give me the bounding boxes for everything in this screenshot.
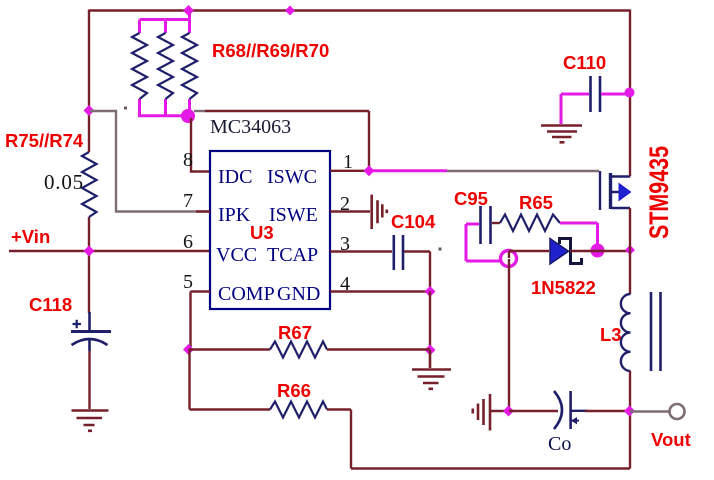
wire C118 to ground (88, 351, 90, 409)
svg-text:R75//R74: R75//R74 (5, 130, 84, 151)
wire pin3 to C104 (330, 250, 392, 252)
junction dot resistor-bank bottom (181, 109, 195, 123)
ground pin2 (rotated right) (372, 195, 388, 229)
node output junction (624, 406, 635, 417)
wire drain node to L3 (629, 250, 631, 294)
wire comp node to R67 (189, 348, 271, 350)
wire C95 to R65 (492, 222, 500, 224)
wire Co to output node (585, 410, 630, 412)
wire pin4 node down to ground node (429, 292, 431, 351)
capacitor C118 (71, 312, 111, 351)
svg-text:+Vin: +Vin (11, 226, 50, 247)
ground below C118 (72, 411, 109, 433)
node ground junction (425, 345, 436, 356)
ground tilted at Co (472, 394, 509, 431)
svg-text:1N5822: 1N5822 (531, 277, 596, 298)
svg-text:IPK: IPK (218, 204, 251, 226)
node top-left junction (183, 5, 194, 16)
svg-text:IDC: IDC (218, 166, 252, 188)
svg-text:Co: Co (548, 433, 571, 455)
node drain junction (625, 245, 635, 255)
node anode ring (501, 251, 517, 267)
resistor R69 (158, 33, 173, 99)
svg-text:ISWC: ISWC (267, 166, 317, 188)
svg-text:COMP: COMP (218, 283, 275, 305)
label R75//R74 (5, 130, 84, 151)
svg-text:C104: C104 (391, 211, 436, 232)
node pin1 junction (364, 165, 375, 176)
wire C110 left to ground (561, 94, 589, 124)
node pin4 junction (425, 286, 436, 297)
svg-text:ISWE: ISWE (269, 204, 318, 226)
wire L3 to output node (629, 371, 631, 411)
capacitor C104 (394, 235, 403, 270)
label C110 (563, 52, 606, 73)
wire C110 right to rail (601, 93, 626, 96)
node left rail junction A (84, 105, 95, 116)
svg-text:GND: GND (277, 283, 320, 305)
svg-text:R68//R69/R70: R68//R69/R70 (212, 40, 329, 61)
svg-text:C118: C118 (29, 294, 72, 315)
pin 4 number (340, 273, 350, 295)
wire C104 to pin4 node (404, 252, 430, 292)
wire left rail upper (88, 10, 90, 153)
resistor R66 (270, 402, 327, 418)
capacitor C110 (591, 76, 601, 112)
pin 3 number (340, 233, 350, 255)
label C95 (454, 188, 488, 209)
wire node to Co (509, 410, 558, 412)
wire right rail (629, 10, 631, 177)
wire IPK sense (gray) (90, 111, 209, 212)
label R65 (519, 192, 553, 213)
pin 6 number (183, 231, 193, 253)
resistor R68 (132, 33, 147, 99)
pin 5 number (183, 271, 193, 293)
svg-text:8: 8 (183, 149, 193, 171)
label C118 (29, 294, 72, 315)
wire pin1 to gate (gray part) (447, 170, 599, 172)
resistor R67 (270, 342, 327, 358)
svg-text:5: 5 (183, 271, 193, 293)
wire +Vin to pin6 (9, 250, 210, 252)
terminal Vout (670, 404, 685, 419)
wire R66 to bottom rail (327, 410, 630, 469)
ground below C110 (541, 126, 582, 144)
svg-text:TCAP: TCAP (267, 244, 318, 266)
node comp junction (183, 344, 194, 355)
svg-text:Vout: Vout (651, 429, 691, 450)
label R67 (278, 322, 312, 343)
label U3 (250, 222, 274, 243)
label +Vin (11, 226, 50, 247)
capacitor Co (554, 391, 588, 429)
svg-text:VCC: VCC (216, 244, 257, 266)
resistor R75//R74 (82, 152, 97, 217)
capacitor C95 (481, 206, 491, 244)
wire cathode to drain rail (570, 250, 630, 252)
label MC34063 (210, 116, 291, 138)
pin 1 number (343, 151, 353, 173)
label C104 (391, 211, 436, 232)
svg-text:7: 7 (183, 190, 193, 212)
pin 8 number (183, 149, 193, 171)
wire output lead (gray) (630, 410, 669, 412)
svg-text:6: 6 (183, 231, 193, 253)
wire bank to pin8 (191, 118, 210, 172)
wire comp node down to R66 (190, 350, 271, 410)
wire R65 to cathode node (560, 223, 598, 245)
svg-text:R66: R66 (277, 380, 311, 401)
svg-text:R67: R67 (278, 322, 312, 343)
label L3 (600, 324, 622, 345)
inductor L3 (621, 292, 661, 371)
wire R68 bank top bus (140, 11, 190, 34)
wire anode node down (508, 259, 510, 411)
pin 7 number (183, 190, 193, 212)
svg-text:U3: U3 (250, 222, 274, 243)
junction dot cathode (591, 244, 605, 258)
svg-text:0.05: 0.05 (44, 170, 84, 194)
svg-text:STM9435: STM9435 (644, 146, 674, 239)
wire top rail (89, 9, 630, 11)
stray dot artifact near bank bus (124, 107, 127, 110)
wire pin5 to comp node (191, 292, 211, 350)
label STM9435 (644, 146, 674, 239)
label R66 (277, 380, 311, 401)
wire left rail lower (88, 217, 90, 313)
node top-mid junction (285, 6, 295, 16)
wire anode lead (509, 251, 549, 258)
label Co (548, 433, 571, 455)
pin 2 number (340, 193, 350, 215)
diode 1N5822 (550, 239, 582, 265)
wire pin1 to gate (magenta part) (369, 169, 447, 172)
wire pin4 to node (330, 290, 430, 292)
op-amp U3 MC34063 body (210, 151, 330, 309)
node +Vin junction (84, 246, 95, 257)
node Co-left junction (503, 406, 514, 417)
label Vout (651, 429, 691, 450)
svg-text:R65: R65 (519, 192, 553, 213)
transistor Q1 STM9435 (600, 171, 632, 210)
resistor R65 (500, 215, 560, 232)
label 1N5822 (531, 277, 596, 298)
wire pin2 to ground (330, 210, 370, 212)
wire R67 to ground node (327, 348, 430, 350)
wire R68 bank bottom bus (138, 99, 190, 116)
svg-text:MC34063: MC34063 (210, 116, 291, 138)
stray dot artifact right of C104 (439, 248, 442, 251)
resistor R70 (182, 33, 197, 99)
ground below pin4 node (412, 350, 451, 390)
wire bank to pin1 riser (194, 111, 369, 171)
value 0.05 (44, 170, 84, 194)
svg-text:L3: L3 (600, 324, 622, 345)
label R68//R69/R70 (212, 40, 329, 61)
wire C95 left loop to anode (466, 224, 502, 261)
pin 7 stub (196, 210, 210, 212)
wire source down to drain node (629, 208, 631, 250)
svg-text:C110: C110 (563, 52, 606, 73)
wire pin1 to node (330, 170, 369, 172)
junction dot C110 rail (625, 88, 635, 98)
svg-text:C95: C95 (454, 188, 488, 209)
